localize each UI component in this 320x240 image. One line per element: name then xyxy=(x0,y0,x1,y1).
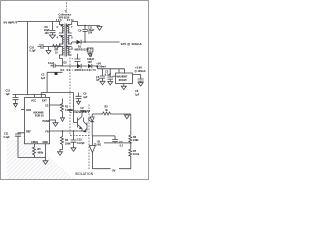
svg-text:1µF: 1µF xyxy=(83,96,88,99)
svg-text:100k: 100k xyxy=(65,143,71,146)
svg-text:MBRS0130L3: MBRS0130L3 xyxy=(75,48,92,51)
svg-text:EUK25: EUK25 xyxy=(119,79,128,82)
svg-text:CS: CS xyxy=(45,105,49,108)
svg-text:0.1µF: 0.1µF xyxy=(4,136,11,139)
svg-text:10V: 10V xyxy=(45,32,50,35)
svg-text:400k: 400k xyxy=(38,152,44,155)
svg-text:ISOLATION: ISOLATION xyxy=(75,172,94,176)
svg-text:FB: FB xyxy=(46,131,49,134)
svg-text:@ 100mA: @ 100mA xyxy=(135,70,146,73)
svg-text:1µF: 1µF xyxy=(96,79,101,82)
svg-text:1µF: 1µF xyxy=(135,93,140,96)
svg-text:0.1µF: 0.1µF xyxy=(105,73,112,76)
svg-text:5V INPUT: 5V INPUT xyxy=(4,21,18,25)
svg-text:D2, D3 = MBRS0130LT3: D2, D3 = MBRS0130LT3 xyxy=(61,69,97,72)
svg-text:10V: 10V xyxy=(88,32,93,35)
svg-text:EXT: EXT xyxy=(42,100,47,103)
svg-text:0.1µF: 0.1µF xyxy=(48,62,55,65)
svg-text:PGND: PGND xyxy=(43,120,50,123)
svg-text:12V @ 100mA: 12V @ 100mA xyxy=(121,42,143,46)
svg-text:10.0k: 10.0k xyxy=(133,153,140,156)
svg-text:0.1µF: 0.1µF xyxy=(30,50,37,53)
svg-text:LDO: LDO xyxy=(26,109,31,112)
svg-text:REF: REF xyxy=(26,130,31,133)
svg-text:1µF: 1µF xyxy=(6,93,11,96)
svg-text:1µF: 1µF xyxy=(41,77,46,80)
svg-text:+5V: +5V xyxy=(96,61,101,65)
svg-text:1 3 5: 1 3 5 xyxy=(56,19,62,22)
svg-text:0V: 0V xyxy=(112,168,115,172)
svg-text:249k: 249k xyxy=(133,139,139,142)
svg-text:10V: 10V xyxy=(88,61,93,64)
svg-text:TL431: TL431 xyxy=(94,144,102,147)
svg-text:0.47µF: 0.47µF xyxy=(77,142,85,145)
svg-text:GND: GND xyxy=(43,141,49,144)
svg-text:VCC: VCC xyxy=(31,100,36,103)
svg-text:FREQ: FREQ xyxy=(31,141,38,144)
svg-text:EUB-10: EUB-10 xyxy=(35,115,44,118)
svg-text:MOC207: MOC207 xyxy=(81,110,91,113)
